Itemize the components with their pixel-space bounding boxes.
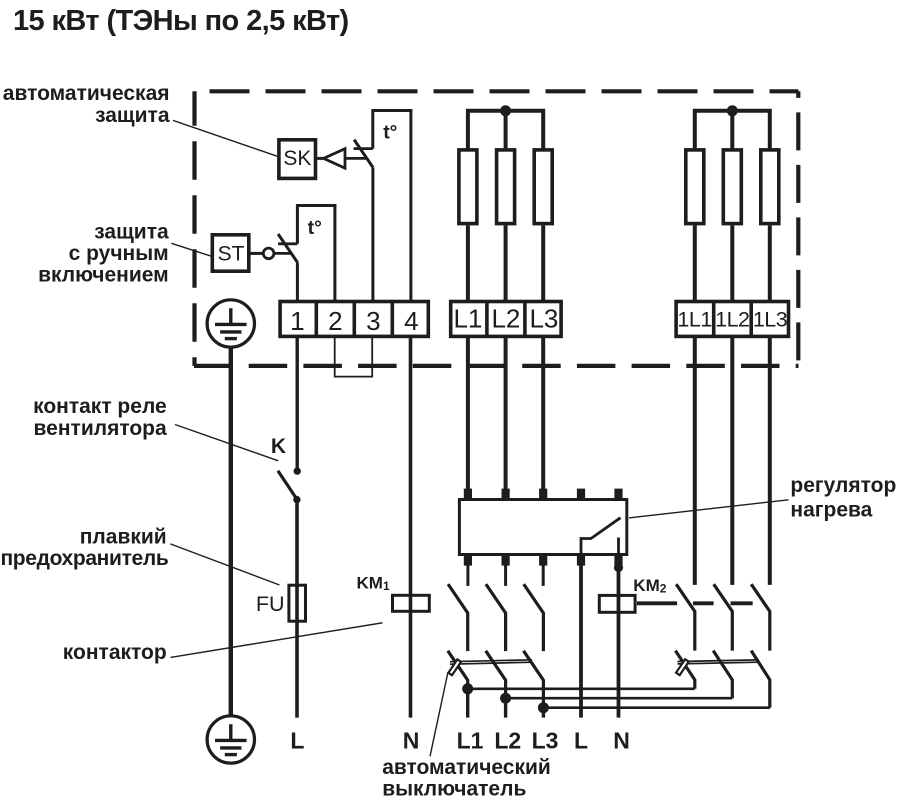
node: star point 1 (500, 105, 511, 116)
ground symbol upper (207, 300, 254, 347)
terminal block X3 (1L1 1L2 1L3) (676, 300, 788, 338)
svg-text:1L2: 1L2 (715, 308, 749, 332)
thermostat ST body (small t° rect) (297, 206, 336, 244)
svg-text:1L3: 1L3 (753, 308, 788, 332)
pointer line to K contact (175, 425, 278, 461)
wire tall rect right edge to terminal 4 (409, 109, 412, 301)
breaker QF1 handle (448, 659, 461, 675)
breaker QF1 pole 2 blade (486, 651, 506, 698)
KM2 linkage dash b (731, 601, 753, 605)
wire ST blade to terminal 1 (296, 263, 299, 301)
contactor coil KM2 (599, 595, 635, 612)
regulator internal switch (581, 518, 621, 556)
svg-text:L1: L1 (457, 728, 484, 754)
svg-text:4: 4 (404, 306, 418, 336)
pointer line to KM1 (171, 623, 383, 658)
node L3 junction (538, 702, 549, 713)
svg-text:t°: t° (383, 122, 397, 144)
wire EK6 to 1L3 (768, 225, 772, 301)
pointer line to ST (171, 243, 210, 256)
wire EK2 to L2 (504, 225, 508, 301)
svg-text:1L1: 1L1 (677, 308, 711, 332)
heater element EK6 (761, 150, 779, 224)
breaker QF2 pole 3 blade (751, 651, 770, 708)
wire EK3 to L3 (541, 225, 545, 301)
node: star point 2 (727, 105, 738, 116)
svg-text:L2: L2 (491, 303, 520, 333)
breaker QF1 linkage bar (450, 660, 532, 664)
KM1 contact pole 3 blade (524, 584, 544, 651)
enclosure dashed border right (796, 91, 800, 366)
svg-text:L2: L2 (494, 728, 521, 754)
KM1 contact pole 1 blade (448, 584, 468, 651)
SK contact blade (354, 140, 373, 168)
relay contact K blade (278, 471, 297, 500)
heater element EK1 (459, 150, 477, 224)
KM2 contact pole 1 blade (676, 584, 695, 650)
contactor coil KM1 (393, 595, 430, 611)
breaker QF1 pole 3 blade (524, 651, 544, 708)
wire L2 feed horizontal (506, 697, 733, 700)
pointer line to regulator (629, 500, 789, 518)
svg-text:FU: FU (256, 592, 285, 616)
svg-text:контактор: контактор (63, 641, 167, 664)
wire L3 feed horizontal (543, 706, 769, 709)
wire EK1 to L1 (466, 225, 470, 301)
wire L1 stub to label (466, 689, 469, 718)
wire K to fuse to L terminal (295, 500, 299, 718)
breaker QF2 pole 1 blade (675, 651, 694, 689)
enclosure dashed border bottom (194, 364, 799, 368)
wire L3 to regulator pin 3 (541, 337, 545, 489)
wire SK blade to terminal 3 (371, 168, 374, 301)
wire L2 stub to label (504, 698, 507, 717)
svg-text:t°: t° (308, 217, 322, 239)
KM1 contact pole 2 stub (504, 565, 507, 586)
breaker QF2 handle (676, 659, 689, 675)
wire regulator pin4 to L bottom (579, 565, 583, 718)
wire terminal 1 to K contact (296, 337, 299, 471)
node on N wire below pin 5 (614, 563, 623, 572)
heater element EK4 (686, 150, 704, 224)
svg-text:N: N (403, 728, 420, 754)
svg-text:L1: L1 (453, 303, 482, 333)
wire 1L1 to KM2 pole 1 (693, 337, 697, 585)
KM2 contact pole 3 blade (751, 584, 770, 650)
relay contact K lower node (293, 496, 300, 503)
ground symbol lower (207, 716, 254, 763)
svg-text:автоматическийвыключатель: автоматическийвыключатель (382, 756, 551, 800)
enclosure dashed border left (192, 91, 196, 366)
svg-text:3: 3 (366, 306, 380, 336)
svg-text:L: L (574, 728, 588, 754)
svg-text:L3: L3 (529, 303, 558, 333)
svg-text:L: L (290, 728, 304, 754)
terminal block X2 (L1 L2 L3) (451, 300, 561, 338)
pointer line to SK (173, 120, 277, 156)
KM1 contact pole 1 stub (466, 565, 469, 586)
svg-text:N: N (613, 728, 630, 754)
heater group 2 star bus (695, 111, 770, 150)
KM1 contact pole 2 blade (486, 584, 506, 651)
node L1 junction (462, 683, 473, 694)
wire arrow lead (345, 157, 367, 160)
heater element EK5 (723, 150, 741, 224)
wire ST to circle (250, 252, 263, 255)
heat regulator box A1 (459, 500, 626, 555)
capillary thermostat SK box (279, 140, 316, 179)
jumper terminals 2-3 (335, 336, 373, 376)
breaker QF1 pole 1 blade (448, 651, 468, 689)
heater group 1 star bus (468, 111, 543, 150)
wire EK5 to 1L2 (730, 225, 734, 301)
thermostat SK sensor body (tall t° rect) (373, 111, 413, 149)
wire PE (229, 347, 233, 716)
ST contact fixed bar (278, 242, 297, 245)
wire EK4 to 1L1 (693, 225, 697, 301)
regulator bottom pins (464, 556, 623, 566)
wire 1L2 to KM2 pole 2 (730, 337, 734, 585)
wire regulator pin5 to N bottom (617, 565, 621, 718)
svg-text:SK: SK (283, 147, 311, 170)
node L2 junction (500, 693, 511, 704)
wire small rect right edge to terminal 2 (333, 204, 336, 301)
wire L3 stub to label (542, 708, 545, 718)
regulator top pins (464, 489, 623, 499)
relay contact K upper node (294, 467, 301, 474)
pointer line to breaker handle (430, 672, 448, 756)
arrow head (capillary) (324, 149, 345, 169)
KM1 contact pole 3 stub (542, 565, 545, 586)
svg-text:1: 1 (290, 306, 304, 336)
svg-text:K: K (271, 435, 286, 458)
wire 1L3 to KM2 pole 3 (768, 337, 772, 585)
KM2 contact pole 2 blade (714, 584, 733, 650)
breaker QF2 pole 2 blade (713, 651, 732, 699)
wire SK to arrow (317, 157, 324, 160)
KM2 linkage lead (637, 601, 677, 605)
svg-text:L3: L3 (532, 728, 559, 754)
KM2 linkage dash a (693, 601, 714, 605)
wire L2 to regulator pin 2 (504, 337, 508, 489)
wire L1 to regulator pin 1 (466, 337, 470, 489)
wire circle to blade (274, 252, 291, 255)
svg-text:2: 2 (328, 306, 342, 336)
svg-text:ST: ST (218, 243, 245, 266)
enclosure dashed border top (194, 89, 799, 93)
heater element EK2 (497, 150, 515, 224)
pointer line to FU (170, 544, 279, 585)
wire L1 feed horizontal (468, 687, 695, 690)
terminal block X1 (1 2 3 4) (280, 300, 428, 338)
svg-text:контакт релевентилятора: контакт релевентилятора (33, 395, 167, 440)
ST manual reset circle (263, 248, 274, 259)
heater element EK3 (534, 150, 552, 224)
ST contact blade (278, 234, 298, 263)
SK contact fixed bar (354, 147, 373, 150)
fuse FU (289, 585, 306, 621)
breaker QF2 linkage bar (678, 660, 759, 664)
safety thermostat ST box (212, 235, 249, 271)
wire terminal 4 to N terminal (409, 337, 413, 718)
svg-text:15 кВт (ТЭНы по 2,5 кВт): 15 кВт (ТЭНы по 2,5 кВт) (13, 5, 349, 37)
